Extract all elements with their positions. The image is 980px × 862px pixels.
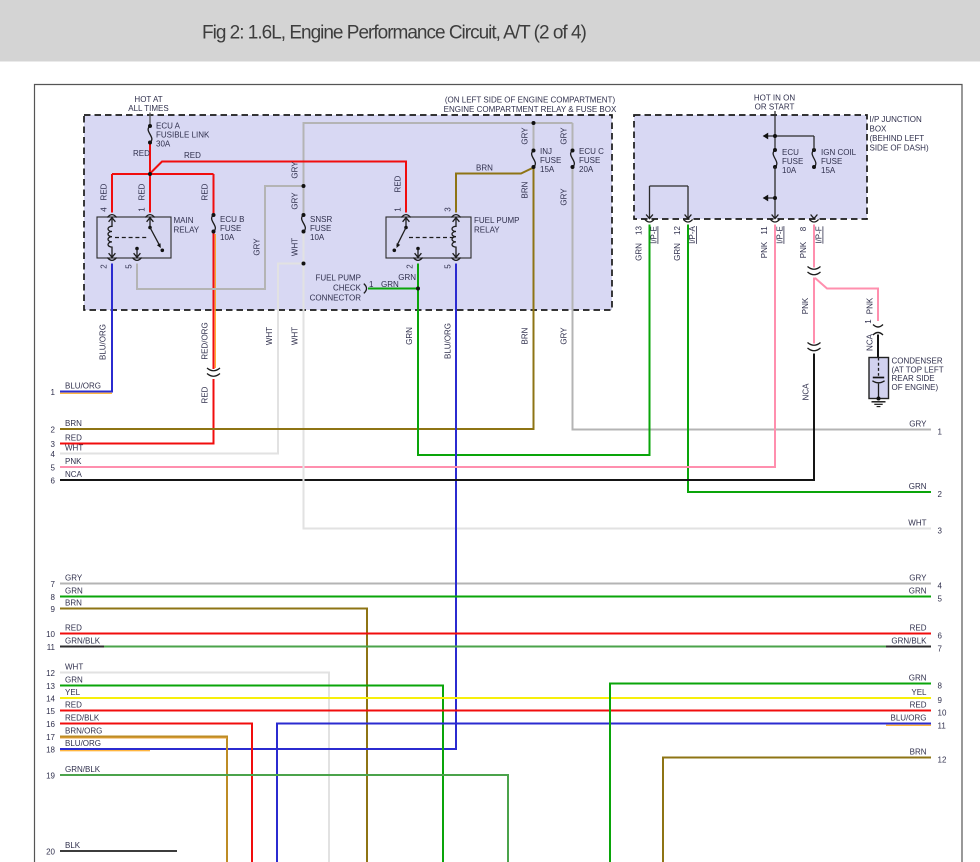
- svg-text:13: 13: [635, 226, 644, 235]
- wire RED/BLK terminal 16 down: [60, 724, 252, 862]
- svg-text:17: 17: [46, 733, 55, 742]
- right terminal labels: [890, 420, 946, 765]
- wire WHT patch over PNK and NCA crossings: [303, 459, 305, 488]
- svg-text:5: 5: [51, 464, 56, 473]
- svg-text:RED/ORG: RED/ORG: [201, 322, 210, 359]
- svg-text:GRN: GRN: [405, 327, 414, 345]
- svg-text:4: 4: [51, 450, 56, 459]
- svg-text:RED: RED: [394, 175, 403, 192]
- svg-text:GRY: GRY: [560, 188, 569, 206]
- svg-text:WHT: WHT: [291, 327, 300, 345]
- wire BRN right terminal 12 down: [663, 758, 931, 862]
- wire RED terminal 10 to right terminal 6: [60, 633, 931, 635]
- wire GRY terminal 7 to right terminal 4: [60, 583, 931, 585]
- svg-text:MAIN: MAIN: [174, 216, 194, 225]
- wire PNK I/P pin11 to terminal 5: [60, 225, 775, 468]
- svg-text:NCA: NCA: [802, 383, 811, 401]
- wire BRN/ORG orange tracer: [60, 737, 227, 739]
- fuse IGN COIL 15A: [812, 148, 857, 175]
- svg-text:10A: 10A: [220, 233, 235, 242]
- svg-text:(AT TOP LEFT: (AT TOP LEFT: [892, 365, 944, 374]
- svg-text:I/P-F: I/P-F: [815, 226, 824, 243]
- fuse INJ 15A: [532, 147, 562, 174]
- svg-text:GRY: GRY: [291, 192, 300, 210]
- svg-text:2: 2: [51, 426, 56, 435]
- svg-text:FUSE: FUSE: [782, 157, 803, 166]
- svg-text:RED: RED: [201, 183, 210, 200]
- svg-text:7: 7: [51, 580, 56, 589]
- svg-text:BRN: BRN: [476, 164, 493, 173]
- svg-text:1: 1: [138, 207, 147, 212]
- svg-text:RED: RED: [65, 433, 82, 442]
- svg-text:PNK: PNK: [760, 241, 769, 258]
- svg-text:I/P-E: I/P-E: [650, 226, 659, 244]
- svg-text:BLU/ORG: BLU/ORG: [99, 324, 108, 360]
- svg-text:16: 16: [46, 720, 55, 729]
- I/P junction box: [634, 115, 867, 219]
- svg-text:WHT: WHT: [908, 519, 926, 528]
- svg-text:8: 8: [799, 226, 808, 231]
- connector 1 condenser: [873, 325, 883, 328]
- svg-text:(ON LEFT SIDE OF ENGINE COMPAR: (ON LEFT SIDE OF ENGINE COMPARTMENT): [445, 96, 616, 105]
- svg-text:1: 1: [51, 388, 56, 397]
- svg-text:1: 1: [369, 280, 374, 289]
- svg-text:I/P JUNCTION: I/P JUNCTION: [870, 115, 923, 124]
- svg-text:GRN/BLK: GRN/BLK: [65, 636, 101, 645]
- svg-text:FUSE: FUSE: [579, 156, 600, 165]
- svg-text:13: 13: [46, 682, 55, 691]
- svg-text:9: 9: [51, 605, 56, 614]
- svg-text:3: 3: [938, 527, 943, 536]
- svg-text:ECU: ECU: [782, 148, 799, 157]
- wire BLK terminal 20: [60, 850, 177, 852]
- svg-text:11: 11: [760, 226, 769, 235]
- svg-text:10: 10: [938, 709, 947, 718]
- svg-text:OR START: OR START: [755, 103, 795, 112]
- svg-text:3: 3: [444, 207, 453, 212]
- svg-text:12: 12: [46, 669, 55, 678]
- wire BLU/ORG patch at crossing: [322, 576, 456, 749]
- fuse SNSR 10A: [302, 213, 333, 242]
- svg-text:FUEL PUMP: FUEL PUMP: [474, 216, 520, 225]
- svg-text:5: 5: [938, 595, 943, 604]
- svg-text:2: 2: [938, 490, 943, 499]
- svg-text:10A: 10A: [310, 233, 325, 242]
- svg-text:20: 20: [46, 848, 55, 857]
- svg-text:NCA: NCA: [65, 470, 83, 479]
- engine compartment relay & fuse box: [84, 115, 612, 310]
- svg-text:RED: RED: [138, 183, 147, 200]
- svg-text:FUSIBLE LINK: FUSIBLE LINK: [156, 131, 210, 140]
- svg-text:3: 3: [51, 440, 56, 449]
- wire GRN/BLK black tracer right: [886, 646, 931, 648]
- I/P pin arrows and cups: [646, 215, 653, 219]
- svg-text:RED: RED: [65, 700, 82, 709]
- svg-text:RED: RED: [65, 623, 82, 632]
- svg-text:SIDE OF DASH): SIDE OF DASH): [870, 144, 929, 153]
- svg-text:11: 11: [938, 722, 947, 731]
- svg-text:BLK: BLK: [65, 841, 81, 850]
- wire BRN/ORG terminal 17 down: [60, 737, 227, 862]
- left terminal labels: [46, 381, 102, 856]
- svg-text:ECU C: ECU C: [579, 147, 604, 156]
- wire RED/ORG orange tracer: [214, 234, 216, 368]
- wire NCA to terminal 6: [60, 352, 814, 481]
- svg-text:(BEHIND LEFT: (BEHIND LEFT: [870, 134, 925, 143]
- svg-text:FUSE: FUSE: [310, 224, 331, 233]
- svg-text:7: 7: [938, 645, 943, 654]
- svg-text:SNSR: SNSR: [310, 215, 332, 224]
- svg-text:BRN/ORG: BRN/ORG: [65, 726, 102, 735]
- wire BLU/ORG fuel pump relay pin5 to terminal 18: [60, 264, 456, 750]
- svg-text:BRN: BRN: [521, 181, 530, 198]
- svg-text:11: 11: [47, 643, 56, 652]
- svg-text:GRY: GRY: [909, 574, 927, 583]
- svg-text:FUSE: FUSE: [540, 156, 561, 165]
- svg-text:FUSE: FUSE: [821, 157, 842, 166]
- svg-text:BRN: BRN: [521, 327, 530, 344]
- svg-text:GRY: GRY: [65, 573, 83, 582]
- fuse ECU 10A I/P: [773, 148, 803, 175]
- svg-text:10A: 10A: [782, 166, 797, 175]
- svg-text:PNK: PNK: [866, 297, 875, 314]
- svg-text:RED: RED: [910, 701, 927, 710]
- wire GRN terminal 8 to right terminal 5: [60, 596, 931, 598]
- wire GRN right terminal 8 down: [610, 684, 931, 862]
- wire BLU/ORG main relay pin2 to terminal 1: [60, 264, 112, 392]
- fusible link ECU A 30A: [148, 122, 210, 149]
- junction grn check connector: [416, 287, 420, 291]
- svg-text:RED: RED: [100, 183, 109, 200]
- wire GRN fuel pump relay pin2 to check connector and I/P pin13: [368, 225, 650, 456]
- svg-text:CONDENSER: CONDENSER: [892, 357, 943, 366]
- svg-text:30A: 30A: [156, 140, 171, 149]
- svg-text:WHT: WHT: [291, 238, 300, 256]
- svg-text:GRN: GRN: [909, 482, 927, 491]
- svg-text:GRN: GRN: [635, 243, 644, 261]
- svg-text:PNK: PNK: [801, 297, 810, 314]
- svg-text:19: 19: [46, 772, 55, 781]
- svg-text:GRN: GRN: [65, 586, 83, 595]
- svg-text:BRN: BRN: [910, 748, 927, 757]
- fuel pump check connector: [310, 273, 417, 302]
- svg-text:GRN: GRN: [673, 243, 682, 261]
- svg-text:GRN/BLK: GRN/BLK: [891, 637, 927, 646]
- svg-text:BLU/ORG: BLU/ORG: [65, 739, 101, 748]
- wire BLU/ORG right terminal 11 down: [277, 724, 931, 862]
- svg-text:NCA: NCA: [866, 333, 875, 351]
- wire WHT terminal 12 down: [60, 673, 329, 862]
- junction gry: [302, 184, 306, 188]
- svg-text:CONNECTOR: CONNECTOR: [310, 293, 362, 302]
- connector break PNK-NCA: [812, 344, 815, 354]
- svg-text:I/P-A: I/P-A: [688, 225, 697, 243]
- svg-text:REAR SIDE: REAR SIDE: [892, 374, 935, 383]
- svg-text:WHT: WHT: [65, 443, 83, 452]
- svg-text:INJ: INJ: [540, 147, 552, 156]
- wire GRY main relay pin5 to fuses feed: [137, 123, 573, 289]
- svg-text:BLU/ORG: BLU/ORG: [890, 714, 926, 723]
- svg-text:GRY: GRY: [560, 127, 569, 145]
- svg-text:9: 9: [938, 696, 943, 705]
- svg-text:15A: 15A: [821, 166, 836, 175]
- svg-text:ECU A: ECU A: [156, 122, 181, 131]
- svg-text:6: 6: [51, 477, 56, 486]
- svg-text:12: 12: [673, 226, 682, 235]
- svg-text:5: 5: [444, 264, 453, 269]
- svg-text:20A: 20A: [579, 165, 594, 174]
- wire NCA to condenser: [877, 335, 879, 358]
- svg-text:ENGINE COMPARTMENT RELAY & FUS: ENGINE COMPARTMENT RELAY & FUSE BOX: [444, 105, 617, 114]
- svg-text:18: 18: [46, 746, 55, 755]
- junction red feed: [148, 172, 152, 176]
- svg-text:2: 2: [406, 264, 415, 269]
- svg-text:GRY: GRY: [521, 127, 530, 145]
- svg-text:PNK: PNK: [799, 241, 808, 258]
- wire GRY ECU C fuse to right terminal 1: [573, 167, 932, 430]
- svg-text:BRN: BRN: [65, 419, 82, 428]
- relay MAIN RELAY: [97, 207, 200, 269]
- ground: [872, 397, 886, 407]
- svg-text:RED/BLK: RED/BLK: [65, 713, 100, 722]
- wire YEL terminal 14 to right terminal 9: [60, 697, 931, 699]
- wire color labels: [99, 127, 875, 404]
- svg-text:RELAY: RELAY: [174, 226, 200, 235]
- svg-text:RED: RED: [910, 624, 927, 633]
- wire PNK I/P pin8 to condenser and NCA: [814, 225, 878, 345]
- svg-text:CHECK: CHECK: [333, 283, 362, 292]
- svg-text:GRN: GRN: [398, 273, 416, 282]
- fuse ECU B 10A: [212, 213, 245, 242]
- svg-text:OF ENGINE): OF ENGINE): [892, 383, 939, 392]
- svg-text:GRN/BLK: GRN/BLK: [65, 765, 101, 774]
- wire RED patch over GRY crossing: [296, 161, 311, 163]
- wire GRN terminal 13 down: [60, 686, 443, 862]
- svg-text:GRN: GRN: [381, 280, 399, 289]
- svg-text:GRY: GRY: [909, 420, 927, 429]
- svg-text:BRN: BRN: [65, 598, 82, 607]
- svg-text:YEL: YEL: [65, 688, 81, 697]
- svg-text:HOT AT: HOT AT: [134, 95, 162, 104]
- svg-text:GRN: GRN: [65, 675, 83, 684]
- svg-text:4: 4: [938, 582, 943, 591]
- svg-text:GRY: GRY: [560, 327, 569, 345]
- svg-text:HOT IN ON: HOT IN ON: [754, 93, 795, 102]
- svg-text:Fig 2: 1.6L, Engine Performanc: Fig 2: 1.6L, Engine Performance Circuit,…: [202, 23, 587, 44]
- svg-text:PNK: PNK: [65, 457, 82, 466]
- svg-text:1: 1: [394, 207, 403, 212]
- wire BRN terminal 9 down: [60, 609, 367, 862]
- I/P junction box internal feed: [650, 136, 815, 218]
- wire WHT SNSR fuse to terminals: [60, 232, 931, 529]
- wire BLU/ORG orange tracer right: [886, 724, 931, 726]
- svg-text:YEL: YEL: [911, 688, 927, 697]
- wire BRN INJ fuse to fuel pump relay pin3 and terminal 2: [60, 167, 534, 429]
- svg-text:1: 1: [938, 428, 943, 437]
- svg-text:RED: RED: [184, 151, 201, 160]
- svg-text:14: 14: [46, 695, 55, 704]
- svg-text:1: 1: [864, 319, 873, 324]
- svg-text:I/P-E: I/P-E: [776, 226, 785, 244]
- svg-text:10: 10: [46, 630, 55, 639]
- svg-text:BLU/ORG: BLU/ORG: [444, 323, 453, 359]
- svg-text:RED: RED: [133, 149, 150, 158]
- wire GRN/BLK terminal 19 down: [60, 775, 508, 862]
- wire RED terminal 15 to right terminal 10: [60, 710, 931, 712]
- svg-text:GRY: GRY: [253, 238, 262, 256]
- wire RED fusible link to main relay and fuel pump relay: [112, 143, 406, 216]
- svg-text:ALL TIMES: ALL TIMES: [128, 104, 168, 113]
- svg-text:5: 5: [125, 264, 134, 269]
- svg-text:RED: RED: [201, 386, 210, 403]
- svg-text:FUSE: FUSE: [220, 224, 241, 233]
- svg-text:ECU B: ECU B: [220, 215, 244, 224]
- relay FUEL PUMP RELAY: [386, 207, 520, 269]
- svg-text:WHT: WHT: [265, 327, 274, 345]
- svg-text:FUEL PUMP: FUEL PUMP: [316, 273, 362, 282]
- svg-text:IGN COIL: IGN COIL: [821, 148, 857, 157]
- svg-text:WHT: WHT: [65, 662, 83, 671]
- svg-text:BLU/ORG: BLU/ORG: [65, 381, 101, 390]
- wire GRN I/P pin12 to right terminal 2: [688, 225, 931, 493]
- svg-text:BOX: BOX: [870, 125, 888, 134]
- svg-text:8: 8: [938, 682, 943, 691]
- connector break RED/ORG-RED: [212, 369, 215, 379]
- fuse ECU C 20A: [571, 147, 605, 174]
- wire RED/ORG ECU B fuse to terminal 3: [60, 232, 214, 444]
- svg-text:12: 12: [938, 756, 947, 765]
- svg-text:8: 8: [51, 593, 56, 602]
- svg-text:RELAY: RELAY: [474, 226, 500, 235]
- svg-text:6: 6: [938, 632, 943, 641]
- junction wht: [302, 262, 306, 266]
- connector break PNK upper: [812, 268, 815, 278]
- svg-text:4: 4: [100, 207, 109, 212]
- svg-text:GRN: GRN: [909, 674, 927, 683]
- svg-text:15A: 15A: [540, 165, 555, 174]
- svg-text:2: 2: [100, 264, 109, 269]
- wire GRN/BLK black tracer left: [60, 646, 104, 648]
- svg-text:15: 15: [46, 707, 55, 716]
- wire GRN/BLK terminal 11 to right terminal 7: [60, 646, 931, 648]
- svg-text:GRY: GRY: [291, 161, 300, 179]
- svg-text:GRN: GRN: [909, 587, 927, 596]
- capacitor condenser: [869, 357, 944, 399]
